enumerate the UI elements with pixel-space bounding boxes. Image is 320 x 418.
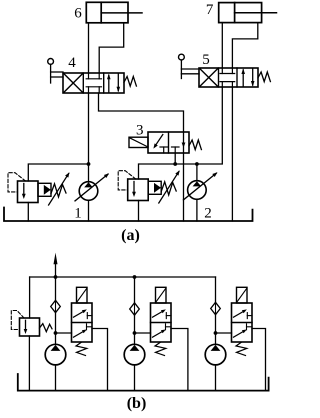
cylinder 7 [219,3,277,23]
wire relief2 to tank [138,201,140,222]
unloading valve B2 upper blocked port [165,313,167,319]
svg-text:3: 3 [136,123,144,139]
pump 2 [188,181,207,200]
relief valve R2 flow arrow [133,182,135,194]
valve 4 right square parallel arrows [107,73,120,92]
wire cylinder6 left port to valve4 A [88,23,90,73]
valve 5 spring [258,72,270,82]
wire rail2 to pump2 inlet [196,164,198,181]
pump 2 variable arrow [183,173,216,200]
svg-text:6: 6 [74,6,82,22]
unloading valve B1 upper blocked port [86,313,88,319]
valve 4 body [63,73,124,93]
valve 3 right square through path [183,132,185,153]
check valve diamond B1 [51,300,61,312]
cylinder 6 [86,2,142,23]
wire valve4 T to valve3 inlet [99,93,184,132]
valve 3 left square arrow path [155,135,163,147]
wire valve3 outlet to tank [183,153,185,221]
svg-text:5: 5 [202,52,210,68]
unloading valve B2 lower path arrow [153,331,164,337]
unloading valve B3 lower blocked port [246,324,248,330]
check valve diamond B2 [130,303,140,315]
junction pump1 rail [87,162,91,166]
unloading valve B2 lower blocked port [165,324,167,330]
pump B1 [45,344,66,365]
relief valve R1 piston triangle [44,185,51,195]
unloading valve B3 solenoid [237,287,248,303]
svg-text:(a): (a) [121,227,140,244]
svg-text:4: 4 [68,55,76,71]
unloading valve B3 upper blocked port [246,313,248,319]
wire check valve to pump B1 [55,313,57,345]
relief valve R1 adjust arrow [49,173,69,205]
relief valve R2 piston triangle [154,183,161,193]
relief valve R1 flow arrow [23,184,25,196]
relief valve R2 spring [161,182,176,195]
relief valve B spring [40,324,53,332]
wire manifold to check valve B2 [134,277,136,303]
junction pump B1 [54,331,58,335]
unloading valve B2 body [151,303,172,342]
wire pump1 to tank [88,200,90,221]
svg-text:(b): (b) [127,395,147,412]
wire check valve to pump B2 [134,315,136,344]
svg-text:1: 1 [74,205,82,221]
wire junction to unload valve B1 [56,332,72,334]
unloading valve B2 solenoid [156,287,167,303]
unloading valve B3 body [232,303,253,342]
junction branch1 manifold [54,275,58,279]
wire relief2 riser, rail 2, to valve5 P [139,87,223,179]
valve 5 left square crossed paths [200,69,218,87]
wire manifold to relief valve b [29,277,31,318]
wire pump B3 to tank [215,365,217,391]
unloading valve B1 body [72,303,93,342]
unloading valve B1 upper path arrow [74,311,85,317]
valve 4 centre closed-port brackets [86,73,101,93]
unloading valve B3 upper path arrow [234,311,245,317]
wire pump2 to tank [196,199,198,221]
valve 5 lever operator [179,54,200,78]
relief valve R2 pilot dashed line [118,171,136,190]
wire pump B2 to tank [134,365,136,391]
valve 3 right square blocked port [172,146,180,148]
valve 4 spring [124,77,136,87]
wire unload valve B2 outlet to tank [171,329,188,391]
relief valve R1 body [18,181,39,203]
wire cylinder7 left port to valve5 A [221,23,223,68]
tank line figure a [4,208,253,222]
junction pump2 on rail2 [195,162,199,166]
pump B3 [205,344,226,365]
valve 4 lever operator [48,59,63,84]
valve 4 left square crossed paths [64,74,83,93]
wire unload valve B3 outlet to tank [252,329,266,391]
junction pump B3 [214,331,218,335]
wire pump B1 to tank [55,365,57,391]
unloading valve B3 lower path arrow [234,331,245,337]
pump 1 variable arrow [75,174,108,201]
unloading valve B2 upper path arrow [153,311,164,317]
relief valve R2 adjust arrow [159,171,179,203]
relief valve R1 spring [51,184,66,197]
relief valve R2 piston box [148,181,161,194]
wire valve5 T to tank [231,87,233,221]
pump B2 [124,344,145,365]
valve 3 left square blocked port [160,146,168,148]
wire junction to unload valve B2 [135,332,151,334]
junction pump B2 [133,331,137,335]
wire unload valve B1 outlet to tank [92,329,108,391]
wire relief1 to tank [27,203,29,222]
wire manifold to check valve B3 [215,277,217,302]
wire rail to pump1 inlet [88,164,90,182]
pump 1 [79,182,98,201]
valve 3 spring [189,140,201,150]
wire valve4 P to pump1 junction [88,93,90,164]
wire relief B to tank [28,336,30,391]
relief valve R1 pilot dashed line [8,173,26,192]
unloading valve B1 lower path arrow [74,331,85,337]
relief valve B pilot dashed line [11,311,24,330]
relief valve B flow arrow [25,320,27,331]
wire check valve to pump B3 [215,315,217,345]
relief valve B body [20,318,40,336]
wire valve3 left port to pump2 rail [174,153,176,164]
svg-text:2: 2 [204,205,212,221]
wire relief1 riser and rail to pump1 [28,164,88,181]
valve 5 body [199,68,258,87]
relief valve R2 body [128,179,149,201]
junction valve3 on rail2 [173,162,177,166]
unloading valve B1 spring [76,343,87,356]
tank line figure b [18,374,269,391]
valve 5 centre closed-port brackets [220,68,235,87]
check valve diamond B3 [211,302,221,314]
unloading valve B1 solenoid [77,287,88,303]
unloading valve B2 spring [155,343,166,356]
valve 5 right square parallel arrows [241,68,254,86]
wire junction to unload valve B3 [216,332,232,334]
svg-text:7: 7 [206,2,214,18]
wire cylinder7 right port to valve5 B [232,23,257,68]
wire manifold to check valve B1 [55,277,57,300]
system outlet arrow [55,263,57,277]
unloading valve B1 lower blocked port [86,324,88,330]
manifold line [30,276,216,278]
wire cylinder6 right port to valve4 B [99,23,124,73]
junction branch2 manifold [133,275,137,279]
valve 3 solenoid [129,137,148,147]
relief valve R1 piston box [38,183,51,196]
valve 3 body [148,132,189,153]
unloading valve B3 spring [236,343,247,356]
